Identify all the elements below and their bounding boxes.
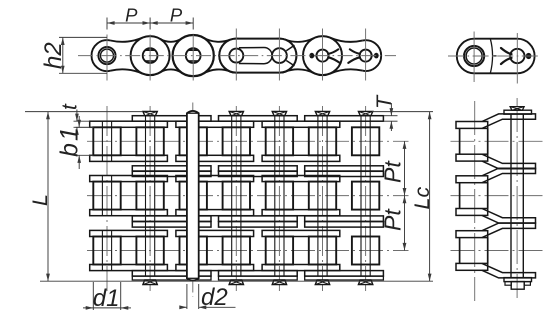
- intermediate plate 2a link2: [219, 216, 298, 222]
- dimension b1 extension lines: [76, 127, 94, 155]
- dimension t extension lines: [74, 121, 90, 127]
- bottom outer plate second row link1: [132, 276, 211, 280]
- sideview strand1 roller edges: [460, 128, 488, 154]
- intermediate plate 2b link1: [132, 222, 211, 228]
- dimension Lc top extension: [372, 111, 433, 113]
- detail horizontal centerline: [448, 55, 541, 57]
- roller pin6 strand1 (plan): [309, 127, 336, 155]
- roller 6 vertical centerline: [322, 29, 324, 81]
- pin 6 body lines: [318, 116, 327, 276]
- intermediate plate 1a link1: [132, 166, 211, 172]
- inner plate link3 strand1 bottom: [262, 155, 340, 161]
- dimension line d2: [179, 305, 235, 309]
- pin 4 rivet head bottom: [229, 280, 243, 285]
- detail pin circle: [510, 49, 524, 63]
- label d2: [201, 284, 228, 311]
- roller pin7 strand2 (plan): [352, 182, 379, 210]
- roller 7 cotter pin prongs: [348, 49, 360, 63]
- roller 2 vertical centerline: [149, 18, 151, 81]
- link bump circle at roller 4 (under stadium): [219, 39, 253, 73]
- svg-text:Pt: Pt: [380, 208, 406, 231]
- roller 7: [360, 50, 372, 62]
- roller pin2 strand1 (plan): [136, 127, 163, 155]
- intermediate plate 1b link3: [305, 171, 384, 177]
- dimension line d1: [83, 306, 131, 310]
- label Pt upper: [380, 160, 406, 183]
- link plate neck contours: [111, 38, 363, 74]
- roller 1 vertical centerline: [106, 18, 108, 81]
- connecting pin body: [187, 111, 199, 281]
- sideview strand3 lower plate bar: [456, 263, 488, 270]
- detail break line: [490, 39, 492, 74]
- roller pin2 strand2 (plan): [136, 182, 163, 210]
- roller 4 vertical centerline: [235, 29, 237, 81]
- inner plate link3 strand1 top: [262, 121, 340, 127]
- connecting pin washer circle: [173, 35, 214, 76]
- sideview strand1 lower cranked plate: [482, 154, 536, 169]
- link bump circle at roller 2: [131, 36, 170, 75]
- connecting pin centerline: [192, 103, 194, 298]
- strand 1 centerline: [87, 140, 409, 142]
- pin chamfer lines: [286, 45, 294, 66]
- pin 4 centerline (plan): [235, 106, 237, 291]
- inner plate link2 strand2 top: [176, 176, 254, 182]
- pin 2 rivet head top: [143, 111, 157, 115]
- inner plate link3 strand3 top: [262, 230, 340, 236]
- pin 1 centerline (plan): [106, 106, 108, 291]
- svg-text:d2: d2: [201, 284, 228, 311]
- top outer plate link3: [305, 116, 384, 122]
- roller pin6 strand2 (plan): [309, 182, 336, 210]
- inner plate link2 strand1 bottom: [176, 155, 254, 161]
- roller pin3 strand2 (plan): [180, 182, 207, 210]
- roller 1 (bushing+roller): [98, 47, 115, 64]
- sideview pin centerline: [516, 98, 518, 298]
- sideview strand3 upper plate bar: [456, 231, 488, 238]
- bottom outer plate second row link2: [219, 276, 298, 280]
- intermediate plate 1a link2: [219, 166, 298, 172]
- roller pin7 strand3 (plan): [352, 237, 379, 265]
- inner plate link1 strand3 top: [90, 230, 168, 236]
- roller 4 (bushing end): [229, 49, 243, 63]
- inner plate link1 strand1 top: [90, 121, 168, 127]
- pin 3 body lines: [189, 116, 198, 276]
- svg-text:Lc: Lc: [410, 187, 434, 210]
- pin 6 rivet head bottom: [315, 280, 329, 285]
- roller pin2 strand3 (plan): [136, 237, 163, 265]
- pin 5 rivet head bottom: [272, 280, 286, 285]
- pin 5 centerline (plan): [278, 106, 280, 291]
- sideview pin line right: [522, 114, 524, 277]
- dimension d1 extension lines: [93, 282, 120, 310]
- svg-text:d1: d1: [93, 285, 120, 312]
- pin 5 rivet head top: [272, 111, 286, 115]
- chain axis centerline: [78, 55, 396, 57]
- roller pin1 strand1 (plan): [93, 127, 120, 155]
- sideview strand2 upper cranked plate: [482, 168, 536, 183]
- pin 7 centerline (plan): [365, 106, 367, 291]
- label L: [28, 194, 52, 206]
- bottom outer plate link2: [219, 271, 298, 277]
- roller 6: [316, 50, 328, 62]
- roller 7 vertical centerline: [365, 29, 367, 81]
- svg-text:T: T: [372, 94, 396, 109]
- pin 7 rivet head top: [358, 111, 372, 115]
- label P second: [170, 4, 183, 25]
- svg-text:L: L: [28, 194, 52, 206]
- strand 2 centerline: [87, 195, 409, 197]
- detail break tick: [493, 55, 497, 57]
- roller pin5 strand1 (plan): [266, 127, 293, 155]
- sideview pin bottom side tabs: [505, 282, 530, 286]
- intermediate plate 2b link3: [305, 222, 384, 228]
- pin 7 rivet head bottom: [358, 280, 372, 285]
- bottom outer plate link1: [132, 271, 211, 277]
- svg-text:h2: h2: [40, 42, 67, 69]
- detail roller circles: [464, 46, 484, 66]
- dimension line T: [390, 103, 394, 131]
- detail link stadium outline: [457, 39, 535, 74]
- sideview strand1 upper plate bar: [456, 122, 488, 129]
- roller pin1 strand2 (plan): [93, 182, 120, 210]
- label P first: [125, 4, 138, 25]
- inner plate link1 strand2 top: [90, 176, 168, 182]
- sideview strand 3 centerline: [451, 250, 545, 252]
- sideview strand2 roller edges: [460, 183, 488, 209]
- roller pin4 strand3 (plan): [223, 237, 250, 265]
- pin 6 centerline (plan): [322, 106, 324, 291]
- roller pin3 strand3 (plan): [180, 237, 207, 265]
- sideview pin top plate: [504, 110, 532, 114]
- roller pin6 strand3 (plan): [309, 237, 336, 265]
- inner plate link1 strand3 bottom: [90, 265, 168, 271]
- pin 7 body lines: [361, 116, 370, 276]
- dimension line P: [107, 21, 193, 25]
- right end cap plate arc: [362, 40, 381, 71]
- roller pin7 strand1 (plan): [352, 127, 379, 155]
- sideview strand3 upper cranked plate: [482, 223, 536, 238]
- roller 6 cotter pin prongs: [328, 49, 340, 63]
- end bushing lines: [102, 121, 111, 270]
- sideview strand3 lower cranked plate: [482, 263, 536, 278]
- strand 3 centerline: [87, 250, 409, 252]
- roller 6 cotter pin head: [309, 53, 316, 59]
- connecting link stadium plate: [219, 39, 296, 73]
- pin 5 body lines: [275, 116, 284, 276]
- dimension h2 extension lines: [59, 37, 107, 73]
- detail roller vertical centerline: [473, 32, 475, 83]
- roller 2 with pin flats: [143, 48, 158, 63]
- dimension line b1: [77, 116, 81, 169]
- sideview bushing centerline: [474, 101, 476, 301]
- sideview strand 2 centerline: [451, 195, 545, 197]
- pin 2 centerline (plan): [149, 106, 151, 291]
- sideview pin line left: [510, 114, 512, 277]
- roller pin5 strand2 (plan): [266, 182, 293, 210]
- roller pin4 strand1 (plan): [223, 127, 250, 155]
- sideview pin bottom plate: [504, 278, 532, 282]
- roller 3 vertical centerline: [192, 18, 194, 81]
- roller 7 cotter pin head: [372, 53, 379, 59]
- inner plate link2 strand1 top: [176, 121, 254, 127]
- pin 2 body lines: [146, 116, 155, 276]
- dimension line Pt: [403, 141, 407, 250]
- sideview pin rivet head top: [510, 107, 524, 111]
- label b1: [56, 127, 84, 157]
- sideview pin bottom end block: [511, 282, 524, 290]
- intermediate plate 1b link1: [132, 171, 211, 177]
- intermediate plate 2a link3: [305, 216, 384, 222]
- inner plate link2 strand3 bottom: [176, 265, 254, 271]
- dimension d2 extension lines: [187, 284, 199, 309]
- link bump circle at roller 6: [303, 36, 342, 75]
- detail pin vertical centerline: [516, 33, 518, 84]
- inner plate link1 strand2 bottom: [90, 210, 168, 216]
- intermediate plate 2a link1: [132, 216, 211, 222]
- label Pt lower: [380, 208, 406, 231]
- dimension L Lc bottom extension: [40, 280, 433, 282]
- left end cap plate arc: [92, 40, 111, 71]
- sideview strand3 roller edges: [460, 238, 488, 264]
- label d1: [93, 285, 120, 312]
- detail cotter prongs: [501, 48, 512, 64]
- roller pin1 strand3 (plan): [93, 237, 120, 265]
- pin 6 rivet head top: [315, 111, 329, 115]
- bottom outer plate link3: [305, 271, 384, 277]
- inner plate link3 strand2 top: [262, 176, 340, 182]
- label Lc: [410, 187, 434, 210]
- pin 4 rivet head top: [229, 111, 243, 115]
- inner plate slot: [239, 48, 272, 64]
- roller pin4 strand2 (plan): [223, 182, 250, 210]
- pin 2 rivet head bottom: [143, 280, 157, 285]
- svg-text:P: P: [170, 4, 183, 25]
- roller 3 with pin flats: [186, 48, 201, 63]
- intermediate plate 1a link3: [305, 166, 384, 172]
- sideview strand 1 centerline: [451, 140, 545, 142]
- sideview strand2 lower plate bar: [456, 209, 488, 216]
- inner plate link2 strand3 top: [176, 230, 254, 236]
- label T: [372, 94, 396, 109]
- roller 5 (pin end): [272, 48, 287, 63]
- top outer plate link2: [219, 116, 298, 122]
- intermediate plate 1b link2: [219, 171, 298, 177]
- svg-text:b 1: b 1: [56, 127, 84, 157]
- pin 4 body lines: [232, 116, 241, 276]
- dimension T extension lines: [383, 116, 397, 122]
- intermediate plate 2b link2: [219, 222, 298, 228]
- dimension line t: [75, 110, 79, 135]
- bottom outer plate second row link3: [305, 276, 384, 280]
- roller pin3 strand1 (plan): [180, 127, 207, 155]
- roller pin5 strand3 (plan): [266, 237, 293, 265]
- inner plate link3 strand3 bottom: [262, 265, 340, 271]
- inner plate link3 strand2 bottom: [262, 210, 340, 216]
- label h2: [40, 42, 67, 69]
- dimension line h2: [61, 37, 65, 73]
- svg-text:P: P: [125, 4, 138, 25]
- dimension line Lc: [428, 112, 432, 282]
- dimension line L: [46, 112, 50, 282]
- link bump circle at roller 5 (under stadium): [262, 39, 296, 73]
- label t: [59, 103, 82, 110]
- sideview strand2 lower cranked plate: [482, 209, 536, 224]
- inner plate link1 strand1 bottom: [90, 155, 168, 161]
- svg-text:Pt: Pt: [380, 160, 406, 183]
- roller 5 vertical centerline: [278, 29, 280, 81]
- detail cotter head: [525, 53, 532, 59]
- inner plate link2 strand2 bottom: [176, 210, 254, 216]
- top outer plate link1: [132, 116, 211, 122]
- sideview strand1 lower plate bar: [456, 154, 488, 161]
- dimension L top extension: [25, 111, 143, 113]
- sideview strand2 upper plate bar: [456, 176, 488, 183]
- sideview strand1 upper cranked plate: [482, 114, 536, 128]
